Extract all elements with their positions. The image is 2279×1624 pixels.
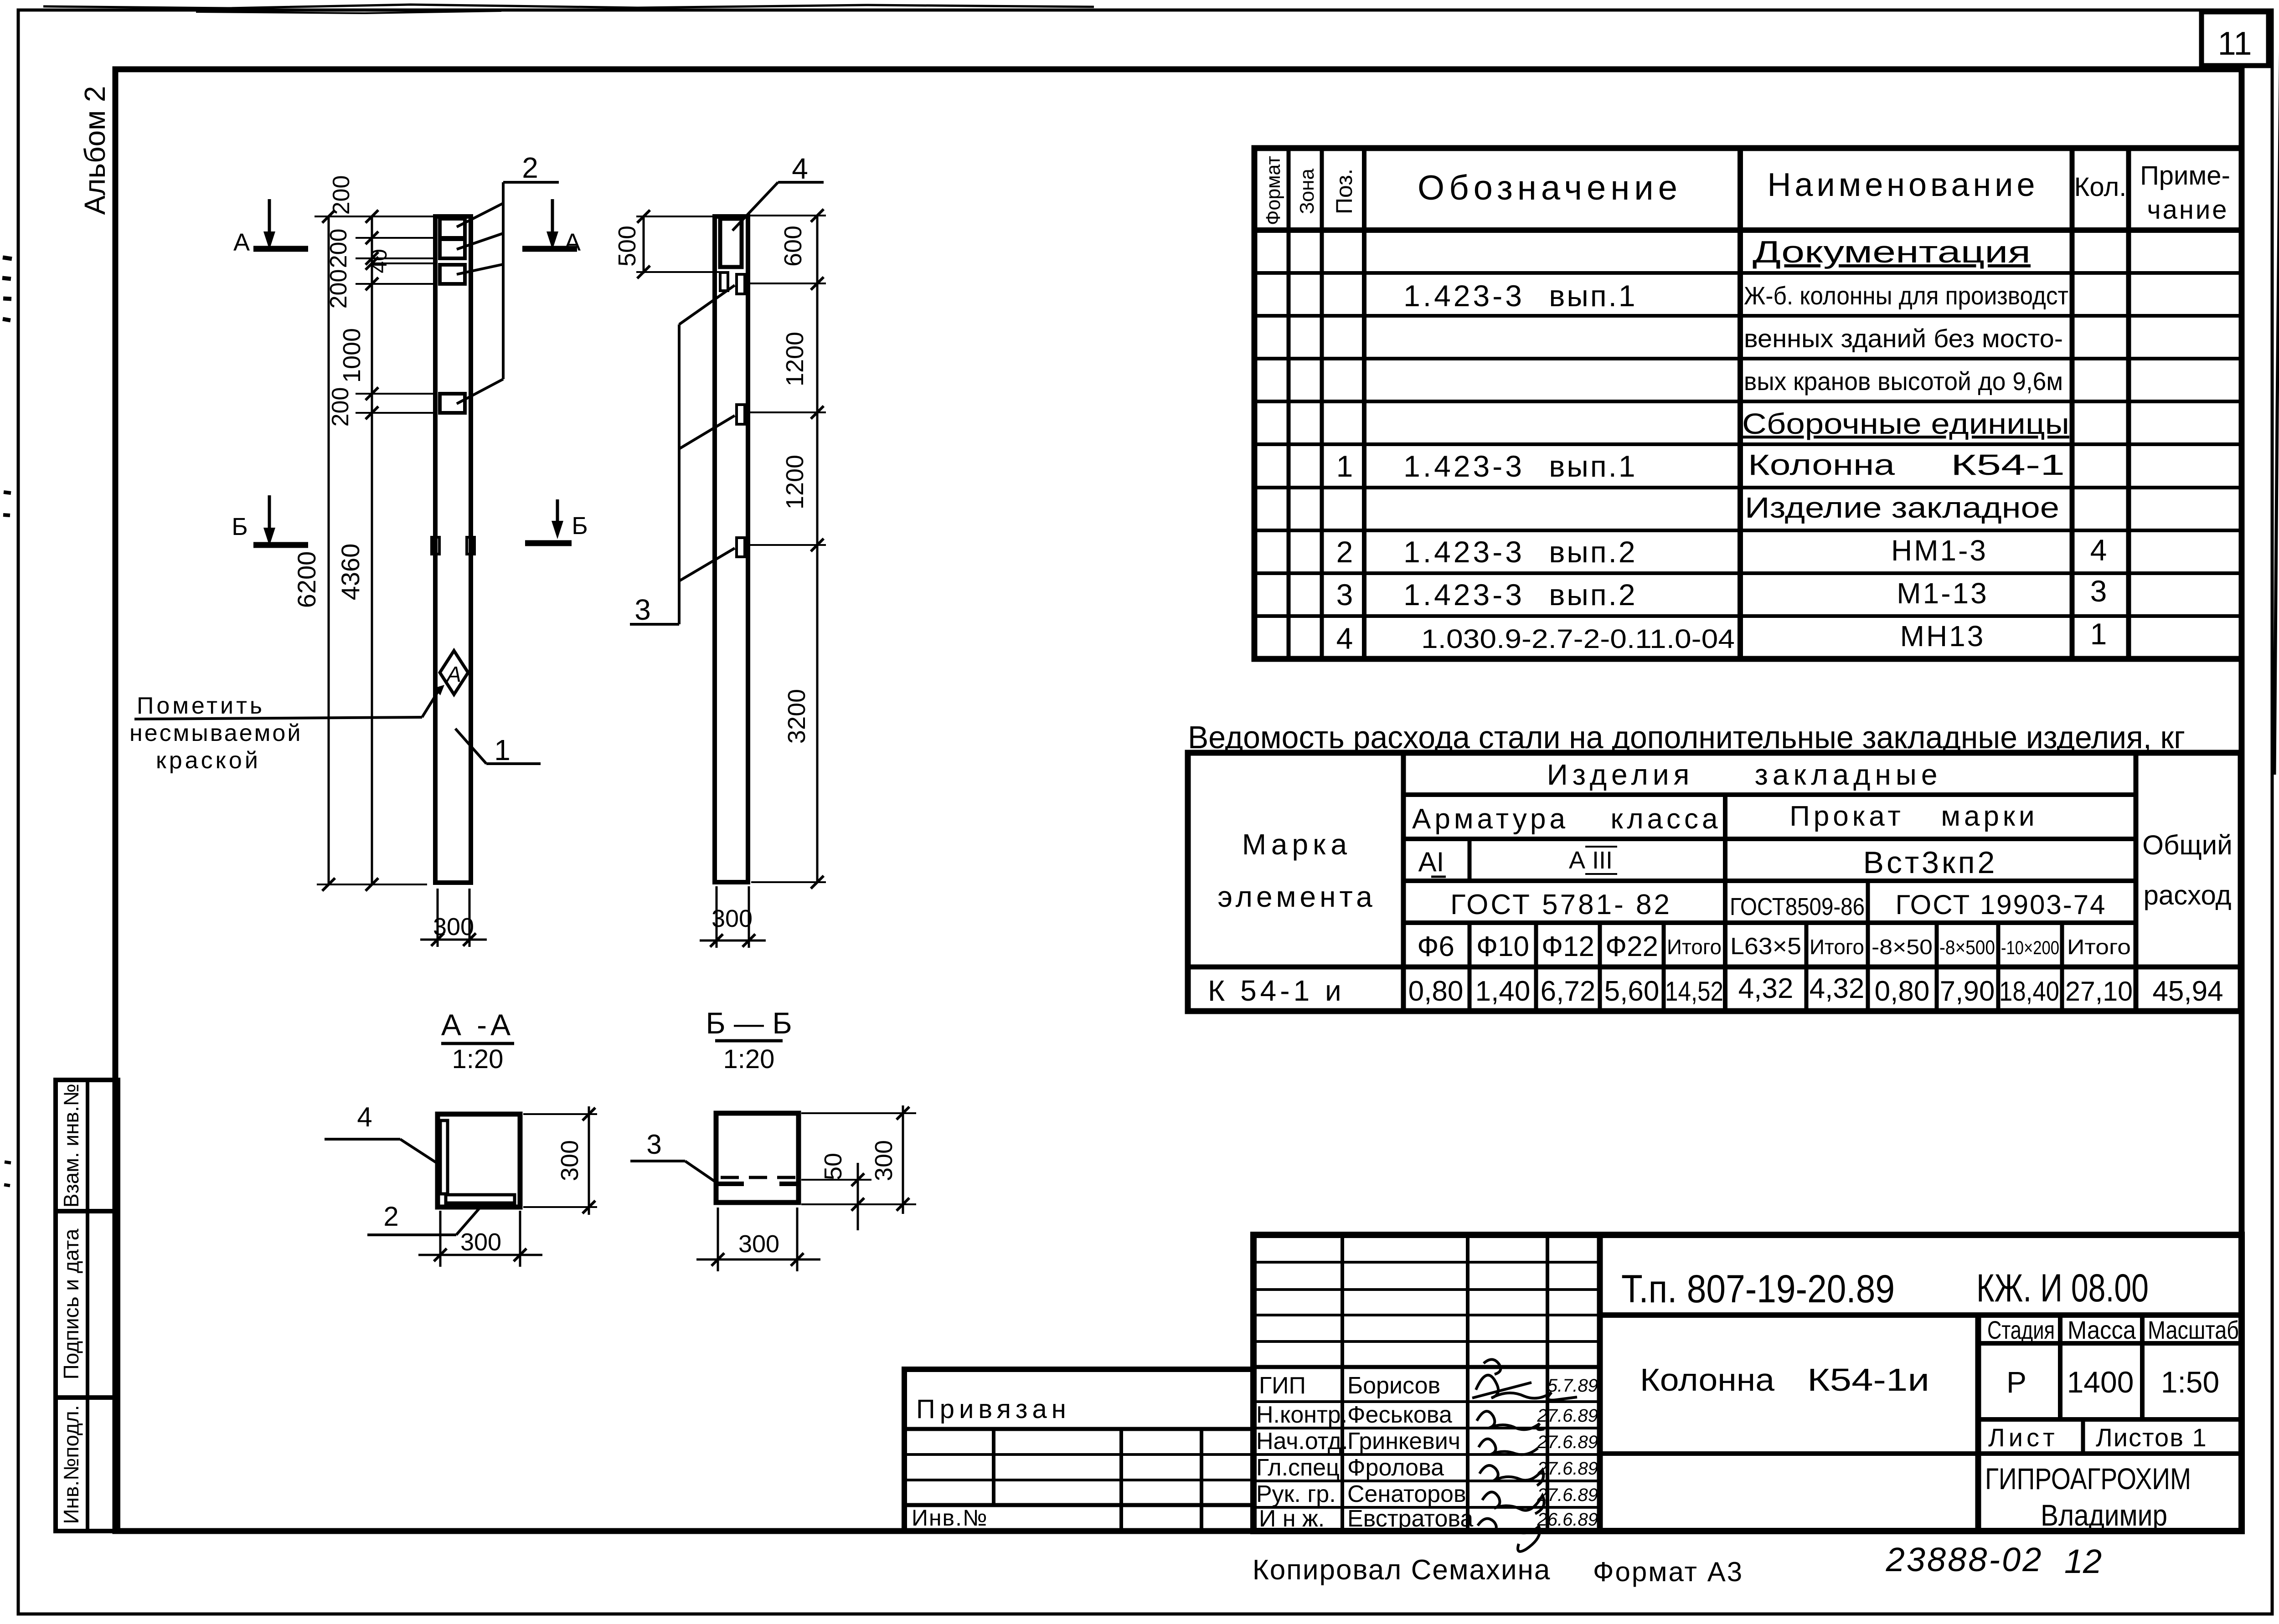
svg-text:12: 12 [2064, 1542, 2102, 1580]
svg-text:ГОСТ 5781- 82: ГОСТ 5781- 82 [1450, 889, 1672, 920]
svg-text:Гринкевич: Гринкевич [1347, 1428, 1460, 1454]
svg-text:200: 200 [325, 269, 352, 309]
svg-text:расход: расход [2143, 880, 2231, 910]
section B-B leader 3 [630, 1129, 717, 1183]
left strip labels [59, 1084, 83, 1524]
svg-text:М1-13: М1-13 [1897, 577, 1988, 610]
svg-text:1.030.9-2.7-2-0.11.0-04: 1.030.9-2.7-2-0.11.0-04 [1421, 624, 1735, 654]
section A-A dim 300 right [523, 1106, 597, 1215]
section B-B dim 300 right [801, 1105, 916, 1214]
svg-text:вып.2: вып.2 [1549, 535, 1637, 569]
svg-text:4: 4 [792, 152, 808, 185]
title block org [1985, 1462, 2191, 1532]
steel table title [1188, 719, 2185, 755]
svg-text:Инв.№: Инв.№ [912, 1505, 988, 1531]
svg-text:Приме-: Приме- [2140, 161, 2230, 190]
svg-text:Рук. гр.: Рук. гр. [1256, 1481, 1336, 1507]
svg-text:МН13: МН13 [1900, 620, 1985, 653]
svg-text:-8×500: -8×500 [1939, 936, 1995, 959]
svg-text:Стадия: Стадия [1987, 1316, 2055, 1344]
svg-text:вып.1: вып.1 [1549, 449, 1637, 483]
section A-A leader 2 [367, 1201, 484, 1235]
svg-text:1:50: 1:50 [2161, 1365, 2219, 1399]
svg-text:К54-1и: К54-1и [1807, 1362, 1929, 1398]
svg-text:Б — Б: Б — Б [706, 1006, 792, 1040]
svg-text:11: 11 [2218, 26, 2252, 62]
svg-text:Масса: Масса [2068, 1316, 2136, 1344]
svg-text:краской: краской [156, 747, 261, 774]
section A-A title [441, 1008, 514, 1074]
column body 1 [435, 216, 471, 883]
section mark B right [525, 499, 588, 543]
svg-text:6200: 6200 [292, 551, 321, 608]
title block stage/mass/scale [1987, 1316, 2239, 1399]
dim 300 bottom view1 [420, 889, 487, 947]
svg-text:300: 300 [738, 1230, 779, 1258]
svg-text:6,72: 6,72 [1541, 976, 1596, 1007]
svg-text:27.6.89: 27.6.89 [1537, 1485, 1598, 1505]
svg-text:Лист: Лист [1988, 1423, 2058, 1452]
embed plates pos2 [440, 219, 465, 413]
dim 500 [614, 210, 720, 278]
svg-text:К 54-1 и: К 54-1 и [1208, 974, 1345, 1007]
svg-text:Изделие закладное: Изделие закладное [1745, 491, 2059, 524]
svg-text:1:20: 1:20 [723, 1044, 775, 1074]
svg-text:Вст3кп2: Вст3кп2 [1863, 845, 1998, 880]
svg-text:7,90: 7,90 [1940, 976, 1995, 1007]
svg-text:0,80: 0,80 [1408, 976, 1464, 1007]
section B-B dim 300 bottom [696, 1208, 820, 1271]
svg-text:-8×50: -8×50 [1872, 935, 1933, 959]
svg-text:КЖ. И 08.00: КЖ. И 08.00 [1976, 1266, 2149, 1310]
svg-text:200: 200 [327, 387, 354, 427]
svg-text:К54-1: К54-1 [1951, 448, 2065, 481]
svg-text:класса: класса [1611, 803, 1722, 835]
title block name [1640, 1362, 1929, 1398]
svg-text:Борисов: Борисов [1347, 1372, 1440, 1399]
svg-text:1000: 1000 [338, 328, 366, 383]
svg-text:1200: 1200 [781, 455, 809, 509]
svg-text:14,52: 14,52 [1665, 976, 1723, 1007]
svg-text:Прокат: Прокат [1789, 801, 1904, 832]
svg-text:вых кранов высотой до 9,6м: вых кранов высотой до 9,6м [1744, 367, 2063, 396]
leader pos 4 [732, 152, 824, 231]
svg-text:А: А [564, 229, 581, 256]
svg-text:НМ1-3: НМ1-3 [1891, 534, 1988, 567]
svg-text:Т.п. 807-19-20.89: Т.п. 807-19-20.89 [1621, 1267, 1895, 1311]
svg-text:L63×5: L63×5 [1730, 933, 1801, 960]
svg-text:Копировал Семахина: Копировал Семахина [1253, 1554, 1551, 1586]
svg-text:1.423-3: 1.423-3 [1403, 449, 1525, 483]
svg-text:1.423-3: 1.423-3 [1403, 535, 1525, 569]
svg-text:300: 300 [460, 1228, 501, 1256]
quality diamond A [440, 651, 468, 694]
scan streak top [2, 5, 2279, 1186]
column body 2 [715, 216, 748, 882]
svg-text:ГИП: ГИП [1259, 1372, 1306, 1399]
svg-text:Формат: Формат [1262, 156, 1284, 225]
svg-text:Наименование: Наименование [1767, 167, 2038, 203]
section A-A leader 4 [325, 1102, 437, 1163]
bottom margin texts [1253, 1541, 2102, 1587]
svg-text:300: 300 [870, 1140, 897, 1181]
privyazan labels [912, 1394, 1071, 1531]
svg-text:Общий: Общий [2142, 830, 2232, 860]
svg-text:Итого: Итого [1810, 935, 1864, 959]
dim chain right [747, 209, 826, 889]
svg-text:18,40: 18,40 [1999, 976, 2059, 1007]
top embed pos4 [720, 219, 742, 291]
svg-text:4: 4 [1336, 622, 1353, 655]
svg-text:Поз.: Поз. [1331, 169, 1357, 214]
svg-text:Колонна: Колонна [1640, 1362, 1774, 1398]
svg-text:4,32: 4,32 [1810, 973, 1865, 1004]
svg-text:600: 600 [779, 226, 807, 267]
svg-text:Марка: Марка [1242, 828, 1351, 861]
svg-text:Нач.отд.: Нач.отд. [1256, 1428, 1348, 1454]
svg-text:несмываемой: несмываемой [129, 720, 302, 746]
svg-text:А -А: А -А [441, 1008, 514, 1042]
spec data rows [1336, 235, 2107, 655]
svg-text:Взам. инв.№: Взам. инв.№ [59, 1084, 83, 1208]
svg-text:Итого: Итого [2067, 935, 2131, 959]
left margin stamp boxes [56, 1080, 118, 1531]
svg-text:АІ: АІ [1418, 847, 1444, 877]
svg-text:40: 40 [367, 249, 392, 273]
svg-text:Зона: Зона [1296, 169, 1318, 214]
svg-text:Пометить: Пометить [137, 693, 265, 719]
svg-text:1: 1 [2090, 617, 2107, 651]
svg-text:Привязан: Привязан [916, 1394, 1071, 1424]
svg-text:Гл.спец: Гл.спец [1256, 1454, 1340, 1481]
svg-text:ГОСТ 19903-74: ГОСТ 19903-74 [1895, 889, 2106, 920]
svg-text:1,40: 1,40 [1475, 976, 1531, 1007]
svg-text:закладные: закладные [1755, 758, 1942, 791]
svg-text:Фролова: Фролова [1347, 1454, 1444, 1481]
svg-text:200: 200 [328, 175, 355, 215]
section B-B body [716, 1113, 799, 1203]
svg-text:3200: 3200 [783, 689, 810, 744]
svg-text:Альбом 2: Альбом 2 [78, 86, 111, 215]
svg-text:Изделия: Изделия [1547, 758, 1694, 791]
svg-text:А ІІІ: А ІІІ [1569, 847, 1613, 874]
dim 300 bottom view2 [700, 886, 766, 948]
steel table lines [1188, 753, 2241, 1011]
privyazan box [904, 1369, 1253, 1531]
svg-text:Феськова: Феськова [1347, 1402, 1452, 1428]
svg-text:Р: Р [2006, 1365, 2026, 1399]
svg-text:Обозначение: Обозначение [1418, 169, 1682, 207]
svg-text:1: 1 [494, 734, 510, 766]
svg-text:200: 200 [325, 229, 352, 268]
svg-text:50: 50 [820, 1153, 847, 1180]
svg-text:Б: Б [572, 512, 588, 540]
leader pos 1 [455, 729, 541, 766]
svg-text:Колонна: Колонна [1748, 448, 1895, 481]
svg-text:300: 300 [712, 905, 753, 932]
svg-text:1.423-3: 1.423-3 [1403, 279, 1525, 313]
svg-text:4360: 4360 [336, 544, 365, 601]
svg-text:ГОСТ8509-86: ГОСТ8509-86 [1730, 893, 1865, 920]
svg-text:марки: марки [1941, 801, 2038, 832]
svg-text:Документация: Документация [1753, 235, 2031, 269]
svg-text:27,10: 27,10 [2065, 976, 2133, 1007]
svg-text:Сборочные единицы: Сборочные единицы [1742, 407, 2069, 440]
section mark A left [233, 199, 308, 256]
svg-text:3: 3 [2090, 574, 2107, 608]
svg-text:Б: Б [232, 513, 247, 540]
svg-text:500: 500 [614, 226, 641, 267]
section B-B title [706, 1006, 792, 1074]
svg-text:Владимир: Владимир [2041, 1498, 2167, 1532]
svg-text:2: 2 [1336, 535, 1353, 569]
svg-text:2: 2 [383, 1201, 398, 1232]
section mark B left [232, 495, 308, 546]
title block signature rows [1256, 1372, 1473, 1532]
svg-text:45,94: 45,94 [2152, 976, 2223, 1007]
svg-text:1.423-3: 1.423-3 [1403, 578, 1525, 612]
svg-text:Инв.№подл.: Инв.№подл. [59, 1405, 83, 1524]
svg-text:Ф6: Ф6 [1417, 931, 1454, 962]
signature dates [1537, 1376, 1598, 1530]
svg-text:А: А [445, 663, 461, 687]
svg-text:Кол.: Кол. [2074, 172, 2127, 202]
svg-text:1200: 1200 [781, 332, 809, 386]
svg-text:5,60: 5,60 [1604, 976, 1660, 1007]
svg-text:Ф10: Ф10 [1476, 931, 1529, 962]
svg-text:300: 300 [433, 913, 474, 940]
spec header texts [1262, 156, 2230, 225]
svg-text:0,80: 0,80 [1875, 976, 1930, 1007]
svg-text:27.6.89: 27.6.89 [1537, 1459, 1598, 1479]
svg-text:Н.контр.: Н.контр. [1256, 1402, 1347, 1428]
svg-text:1: 1 [1336, 449, 1353, 483]
svg-text:5.7.89: 5.7.89 [1547, 1376, 1598, 1396]
svg-text:Ведомость расхода стали на доп: Ведомость расхода стали на дополнительны… [1188, 719, 2185, 755]
svg-text:27.6.89: 27.6.89 [1537, 1432, 1598, 1452]
svg-text:1400: 1400 [2067, 1365, 2134, 1399]
section B-B dim 50 [801, 1153, 871, 1230]
svg-text:3: 3 [646, 1129, 661, 1160]
svg-text:И н ж.: И н ж. [1259, 1506, 1325, 1532]
svg-text:венных зданий без мосто-: венных зданий без мосто- [1744, 324, 2063, 353]
svg-text:чание: чание [2147, 195, 2228, 225]
title block doc number [1621, 1266, 2149, 1311]
note text [129, 685, 444, 774]
signatures squiggles [1472, 1359, 1577, 1551]
svg-text:Подпись и дата: Подпись и дата [59, 1228, 83, 1379]
small edge marks at B-B level [432, 537, 474, 554]
leader pos 2 [457, 151, 559, 404]
svg-text:Евстратова: Евстратова [1347, 1506, 1473, 1532]
svg-text:27.6.89: 27.6.89 [1537, 1406, 1598, 1426]
album label [78, 86, 111, 215]
svg-text:Листов 1: Листов 1 [2096, 1423, 2207, 1452]
sheet number box 11 [2202, 12, 2269, 66]
svg-text:300: 300 [556, 1140, 583, 1181]
svg-text:Ф12: Ф12 [1542, 931, 1594, 962]
pos3 marks [737, 274, 745, 557]
svg-text:3: 3 [634, 593, 651, 626]
svg-text:1:20: 1:20 [452, 1044, 504, 1074]
svg-text:Формат А3: Формат А3 [1593, 1557, 1743, 1587]
section mark A right [522, 199, 581, 256]
svg-text:4: 4 [2090, 533, 2107, 567]
title block sheets [1988, 1423, 2207, 1452]
svg-text:4,32: 4,32 [1738, 973, 1794, 1004]
leader pos 3 [630, 285, 735, 626]
section A-A dim 300 bottom [418, 1211, 542, 1267]
svg-text:4: 4 [357, 1102, 372, 1132]
svg-text:-10×200: -10×200 [2001, 937, 2059, 958]
svg-text:А: А [233, 229, 250, 256]
svg-text:вып.1: вып.1 [1549, 279, 1637, 313]
svg-text:элемента: элемента [1217, 880, 1376, 913]
svg-text:Ф22: Ф22 [1605, 931, 1658, 962]
svg-text:26.6.89: 26.6.89 [1537, 1510, 1598, 1530]
svg-text:вып.2: вып.2 [1549, 578, 1637, 612]
dim chain 4360 + plate spacings [315, 175, 437, 891]
svg-text:Арматура: Арматура [1412, 803, 1569, 835]
svg-text:3: 3 [1336, 578, 1353, 612]
steel table texts [1208, 758, 2233, 1007]
dim chain 6200 [292, 210, 335, 891]
svg-text:2: 2 [522, 151, 538, 184]
svg-text:Сенаторов: Сенаторов [1347, 1481, 1466, 1507]
svg-text:Масштаб: Масштаб [2148, 1316, 2239, 1344]
svg-text:Ж-б. колонны для производст: Ж-б. колонны для производст [1744, 281, 2068, 310]
section A-A body [438, 1114, 520, 1207]
svg-text:23888-02: 23888-02 [1886, 1541, 2043, 1578]
svg-text:Итого: Итого [1667, 935, 1722, 959]
svg-text:ГИПРОАГРОХИМ: ГИПРОАГРОХИМ [1985, 1462, 2191, 1496]
